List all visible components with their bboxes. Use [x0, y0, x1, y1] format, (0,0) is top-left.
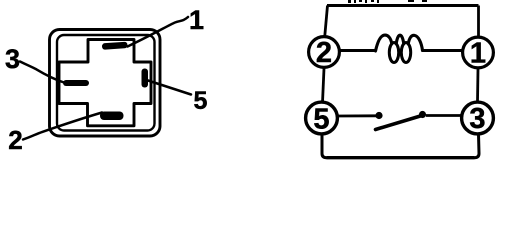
wire coil right lead — [423, 49, 463, 52]
leader line to pin 3 — [20, 62, 64, 83]
switch blade — [376, 116, 423, 130]
wire switch left lead — [338, 114, 376, 117]
svg-text:2: 2 — [8, 125, 22, 155]
wire bottom-right vertical — [475, 134, 480, 158]
relay pedestal cross — [59, 40, 151, 126]
wire left middle vertical — [323, 69, 325, 103]
pin 1 slot — [102, 42, 128, 50]
terminal circle 5 — [306, 102, 338, 135]
pin 3 slot — [63, 80, 89, 86]
wire top edge — [327, 4, 479, 7]
scan noise ticks top — [348, 0, 427, 3]
wire coil left lead — [340, 49, 377, 52]
wire top-right vertical — [477, 6, 480, 37]
terminal circle 3 — [462, 102, 494, 135]
leader line to pin 2 — [23, 113, 102, 140]
svg-text:1: 1 — [470, 38, 486, 70]
terminal circle 2 — [309, 37, 340, 69]
wire switch right lead — [426, 114, 461, 117]
wire bottom edge — [327, 156, 475, 159]
pin 2 slot — [100, 112, 124, 121]
pin 5 slot — [142, 69, 149, 88]
svg-text:5: 5 — [194, 87, 208, 115]
leader line to pin 5 — [148, 81, 191, 95]
svg-text:2: 2 — [316, 37, 332, 69]
relay inset outline — [57, 35, 155, 131]
svg-text:5: 5 — [313, 104, 329, 136]
wire right middle vertical — [476, 69, 479, 102]
switch contact dot left — [375, 112, 382, 119]
svg-text:3: 3 — [5, 44, 20, 74]
coil L (relay winding) — [376, 35, 423, 62]
svg-text:3: 3 — [469, 103, 485, 135]
wire top-left vertical — [325, 6, 328, 36]
terminal circle 1 — [463, 37, 494, 69]
switch contact dot right — [419, 111, 426, 118]
svg-text:1: 1 — [189, 5, 204, 35]
relay body outline — [50, 30, 161, 137]
wire bottom-left vertical — [322, 135, 327, 158]
leader line to pin 1 — [128, 17, 189, 47]
